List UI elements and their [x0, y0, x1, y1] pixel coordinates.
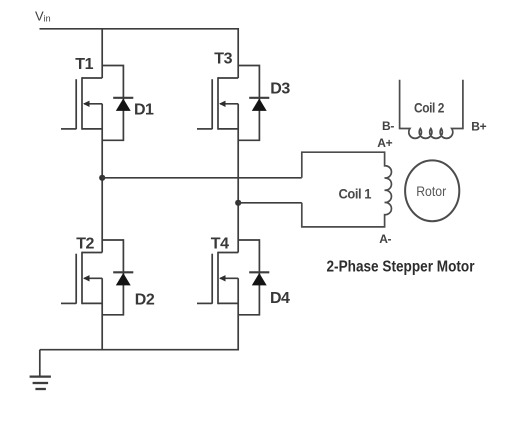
svg-text:T4: T4 — [211, 235, 229, 252]
diode D3 — [238, 66, 290, 141]
svg-text:Vin: Vin — [35, 8, 51, 23]
svg-text:Rotor: Rotor — [416, 183, 446, 199]
wire A- (right bridge node to Coil 1) — [238, 202, 302, 204]
diode D2 — [102, 240, 155, 315]
rotor circle — [405, 160, 459, 221]
wire right trunk upper (Vin rail to T3 drain) — [237, 28, 239, 78]
wire left trunk middle (T1 source to T2 drain) — [101, 104, 103, 253]
node A- junction dot — [235, 200, 241, 206]
diode D4 — [238, 240, 290, 315]
svg-text:2-Phase Stepper Motor: 2-Phase Stepper Motor — [327, 258, 475, 275]
svg-text:A-: A- — [379, 232, 391, 246]
wire left trunk lower (T2 source to ground rail) — [101, 278, 103, 350]
wire Vin top rail — [40, 28, 239, 30]
svg-text:Coil 1: Coil 1 — [339, 185, 372, 201]
svg-text:B+: B+ — [471, 119, 486, 133]
svg-text:D4: D4 — [270, 290, 290, 307]
wire right trunk middle (T3 source to T4 drain) — [237, 104, 239, 253]
diode D1 — [102, 66, 154, 141]
ground — [30, 350, 51, 389]
svg-text:B-: B- — [382, 119, 394, 133]
svg-text:D3: D3 — [270, 80, 290, 97]
transistor T1 — [61, 56, 102, 130]
svg-text:D1: D1 — [134, 102, 154, 119]
transistor T2 — [61, 236, 102, 305]
inductor Coil 1 — [302, 152, 392, 227]
svg-text:T3: T3 — [214, 50, 232, 67]
node A+ junction dot — [99, 175, 105, 181]
wire A+ (left bridge node to Coil 1) — [102, 177, 302, 179]
svg-text:Coil 2: Coil 2 — [414, 100, 445, 116]
transistor T3 — [197, 50, 238, 129]
wire ground rail bottom — [40, 349, 238, 351]
svg-text:D2: D2 — [135, 291, 155, 308]
transistor T4 — [197, 235, 238, 304]
wire right trunk lower (T4 source to ground rail) — [237, 278, 239, 350]
wire left trunk upper (Vin to T1 drain) — [101, 29, 103, 78]
svg-text:T1: T1 — [75, 56, 93, 73]
svg-text:T2: T2 — [76, 236, 94, 253]
svg-text:A+: A+ — [377, 136, 392, 150]
inductor Coil 2 — [400, 80, 463, 139]
